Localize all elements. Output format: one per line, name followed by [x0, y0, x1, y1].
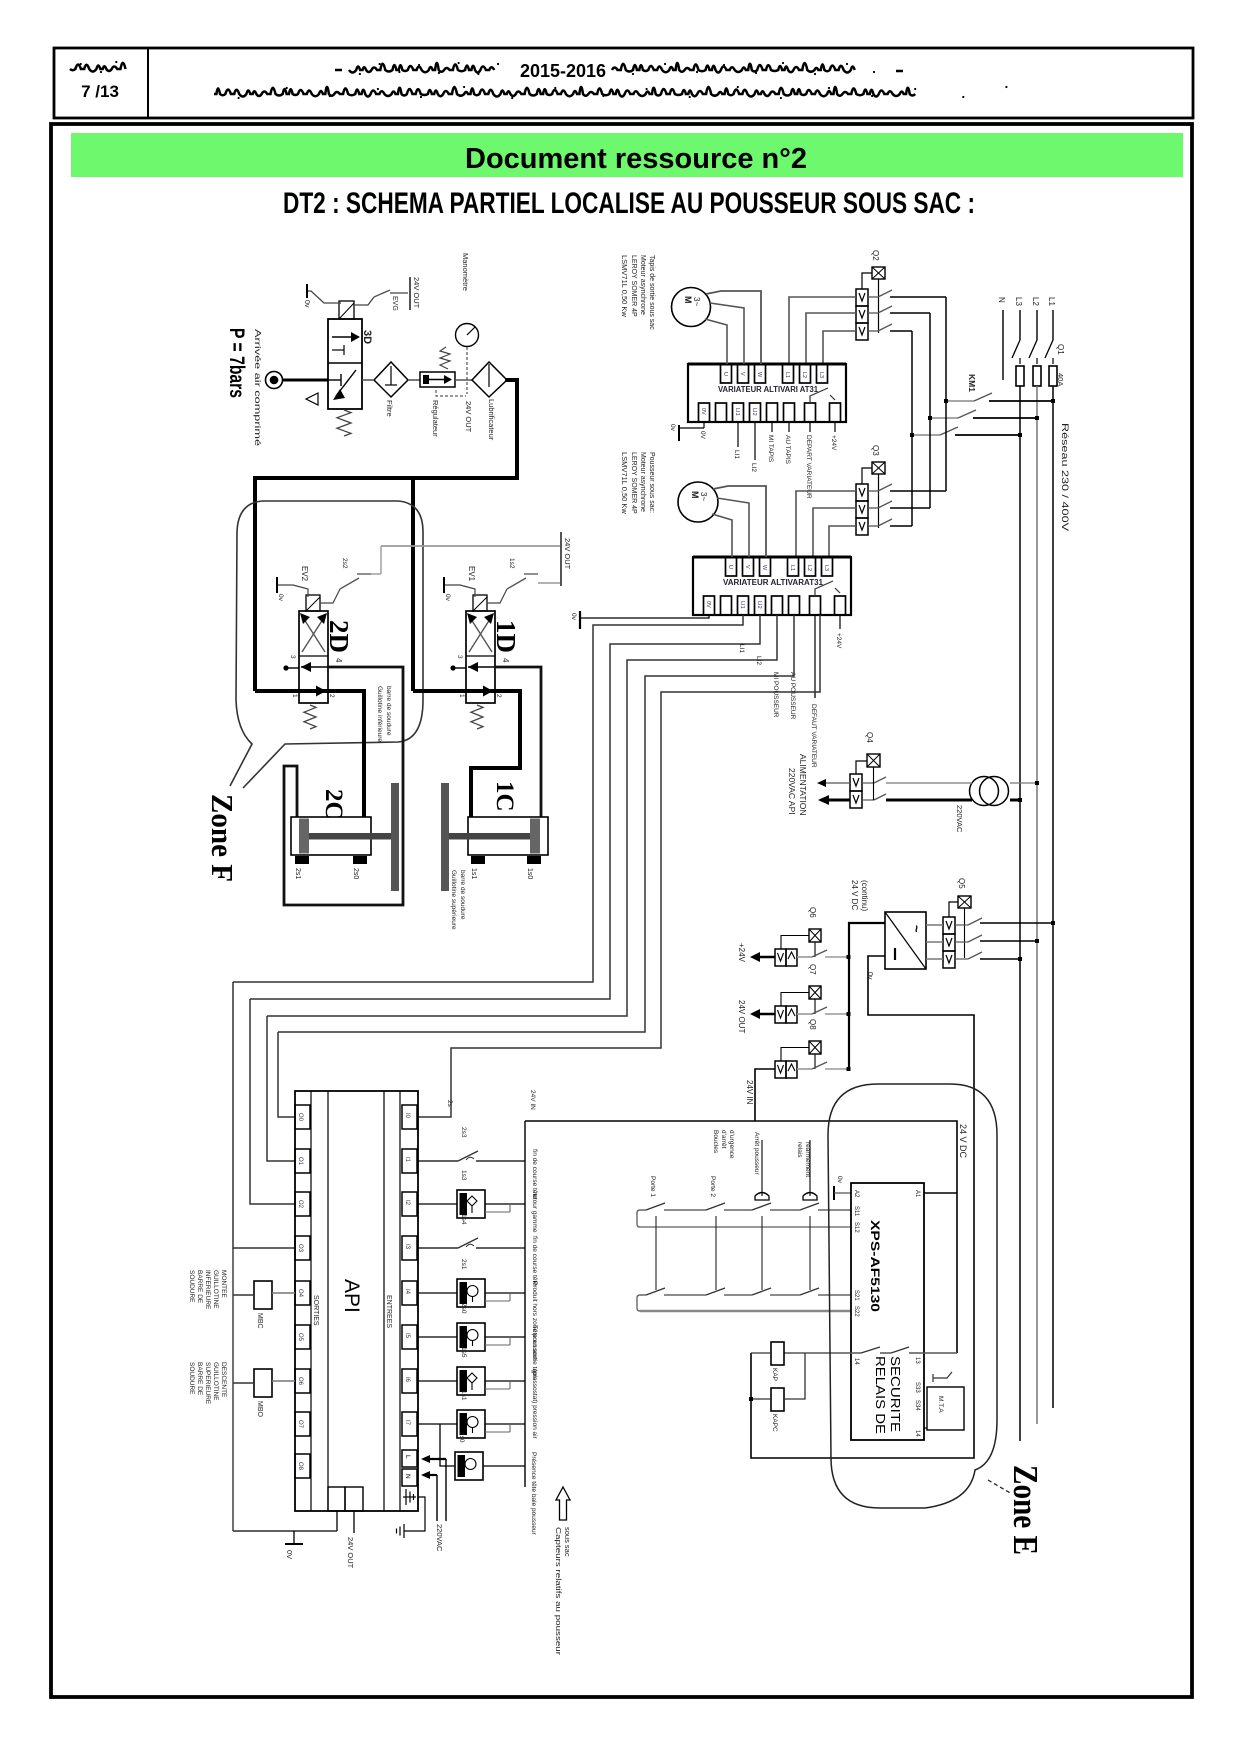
svg-text:2s0: 2s0	[460, 1303, 467, 1314]
svg-text:Zone E: Zone E	[1006, 1465, 1045, 1555]
svg-text:S21: S21	[853, 1290, 859, 1301]
svg-text:DESCENTE: DESCENTE	[220, 1362, 227, 1398]
svg-text:2C: 2C	[320, 789, 347, 820]
wires Q3 to variateur 2	[796, 491, 856, 557]
svg-text:0v: 0v	[444, 594, 451, 602]
valve 1D exhaust port 3	[454, 667, 466, 669]
svg-text:INFERIEURE: INFERIEURE	[204, 1270, 211, 1310]
distribution row Q7	[775, 1006, 786, 1023]
svg-text:LEROY SOMER 4P: LEROY SOMER 4P	[630, 255, 637, 317]
Q4 breaker	[850, 774, 862, 791]
cylinder 1C rod	[446, 833, 530, 840]
svg-text:2: 2	[495, 694, 502, 698]
svg-text:VARIATEUR ALTIVARI AT31: VARIATEUR ALTIVARI AT31	[718, 385, 819, 394]
svg-text:LI1: LI1	[739, 601, 745, 609]
solenoid EV2	[306, 595, 320, 611]
svg-text:GUILLOTINE: GUILLOTINE	[212, 1362, 219, 1401]
left bus down to 0V	[232, 1248, 234, 1531]
svg-text:14: 14	[914, 1430, 920, 1437]
svg-text:MI TAPIS: MI TAPIS	[767, 435, 774, 463]
filtre	[374, 362, 408, 397]
svg-text:retour gamme: retour gamme	[531, 1192, 538, 1233]
svg-text:220VAC: 220VAC	[955, 805, 964, 833]
svg-text:24V OUT: 24V OUT	[563, 538, 572, 570]
svg-text:0v: 0v	[570, 613, 577, 621]
header exam title line 1 (Arabic)	[349, 63, 855, 73]
staircase landings	[233, 982, 295, 1248]
API L N terminals	[402, 1450, 417, 1467]
variateur 1 0V bar	[679, 428, 704, 433]
relay coil MBO (descente guillotine)	[254, 1369, 272, 1397]
header divider	[147, 48, 149, 118]
svg-text:0V: 0V	[705, 601, 711, 608]
svg-text:1: 1	[458, 694, 465, 698]
svg-text:I2: I2	[404, 1200, 410, 1206]
svg-text:LSMV71L 0,50 Kw: LSMV71L 0,50 Kw	[620, 255, 629, 317]
svg-text:Document ressource n°2: Document ressource n°2	[465, 143, 807, 175]
svg-text:Q1: Q1	[1056, 344, 1065, 355]
cylinder 2C piston	[299, 819, 309, 854]
feeder Q2/Q3 verticals	[945, 297, 947, 491]
svg-text:Présence tête bale pousseur: Présence tête bale pousseur	[530, 1452, 537, 1536]
chain 0v terminal	[833, 1186, 835, 1200]
Q4 contacts	[862, 782, 874, 784]
svg-text:AU POUSSEUR: AU POUSSEUR	[789, 672, 796, 720]
svg-text:LI1: LI1	[734, 408, 740, 416]
VARIATEUR ALTIVARAT31 box	[693, 557, 851, 615]
e-stop chain loop 2 (S21-S22)	[637, 1295, 851, 1311]
svg-text:SUPERIEURE: SUPERIEURE	[204, 1362, 211, 1405]
svg-text:2s3: 2s3	[460, 1127, 467, 1138]
svg-text:EV2: EV2	[300, 566, 309, 582]
svg-text:KAPC: KAPC	[771, 1414, 778, 1432]
svg-text:Tapis de sortie sous sac: Tapis de sortie sous sac	[648, 255, 655, 330]
distribution row Q8	[775, 1061, 786, 1078]
svg-text:V: V	[739, 372, 745, 376]
svg-text:I4: I4	[404, 1289, 410, 1295]
24V OUT bus (valves)	[381, 545, 561, 547]
svg-text:SECURITE: SECURITE	[888, 1356, 902, 1432]
svg-text:4: 4	[334, 658, 343, 663]
motor M1	[672, 288, 711, 327]
svg-text:2s: 2s	[446, 1100, 453, 1108]
svg-text:LEROY SOMER 4P: LEROY SOMER 4P	[630, 452, 637, 514]
svg-text:LI2: LI2	[751, 408, 757, 416]
svg-text:L3: L3	[818, 372, 824, 378]
svg-text:Arrêt pousseur: Arrêt pousseur	[753, 1132, 760, 1175]
+24V bus from PSU	[849, 923, 885, 1069]
svg-text:V: V	[744, 565, 750, 569]
input device 2s1	[418, 1292, 457, 1294]
Zone E pointer	[988, 1480, 1012, 1494]
svg-text:3: 3	[289, 655, 296, 659]
cylinder 1C sensors	[471, 856, 485, 864]
Q4 fuse + label	[867, 754, 880, 767]
svg-text:EVG: EVG	[391, 296, 398, 311]
svg-text:BARRE DE: BARRE DE	[196, 1362, 203, 1396]
EVG coil wire left + 0V	[307, 291, 341, 303]
svg-text:Q4: Q4	[865, 732, 874, 743]
N stub above inputs	[417, 1116, 419, 1118]
Zone F boundary	[243, 501, 423, 788]
svg-text:L2: L2	[1031, 297, 1040, 306]
valve 3D body	[328, 319, 362, 409]
svg-text:Porte 1: Porte 1	[649, 1176, 656, 1197]
svg-text:M: M	[683, 296, 693, 304]
svg-text:+24V: +24V	[835, 633, 842, 649]
svg-text:1s4: 1s4	[460, 1214, 467, 1225]
svg-text:I0: I0	[404, 1113, 410, 1119]
svg-text:ALIMENTATION: ALIMENTATION	[798, 754, 808, 816]
svg-text:0V: 0V	[700, 408, 706, 415]
svg-text:O3: O3	[297, 1244, 303, 1253]
svg-text:KM1: KM1	[967, 374, 977, 392]
valve 1D spring	[471, 705, 483, 729]
input device 1s1	[418, 1423, 457, 1425]
svg-text:EV1: EV1	[467, 566, 476, 582]
svg-text:Boucles: Boucles	[712, 1130, 719, 1154]
svg-text:1s5: 1s5	[460, 1347, 467, 1358]
network verticals	[1019, 386, 1021, 435]
svg-text:d’arrêt: d’arrêt	[720, 1130, 727, 1149]
solenoid EV1	[473, 595, 487, 611]
svg-text:I1: I1	[404, 1157, 410, 1163]
svg-text:Q8: Q8	[808, 1019, 817, 1030]
svg-text:+24V: +24V	[737, 943, 746, 963]
cylinder 2C body	[291, 817, 371, 855]
svg-text:O0: O0	[297, 1113, 303, 1122]
svg-text:M: M	[690, 491, 700, 499]
svg-text:0V: 0V	[285, 1550, 294, 1559]
svg-text:N: N	[997, 297, 1006, 303]
lubrificateur	[455, 379, 472, 381]
24VDC sensor rail	[525, 1121, 957, 1353]
svg-text:13: 13	[914, 1357, 920, 1364]
valve 3D spring	[337, 410, 351, 436]
motor M1 wires	[706, 291, 761, 364]
svg-text:0v: 0v	[866, 972, 873, 980]
cylinder 1C piston	[530, 819, 540, 854]
svg-text:0V: 0V	[699, 431, 706, 440]
manometre	[456, 324, 479, 347]
API block	[295, 1091, 418, 1511]
emergency stop buttons	[755, 1193, 769, 1201]
svg-text:Guillotine supérieure: Guillotine supérieure	[450, 870, 457, 930]
svg-text:I5: I5	[404, 1333, 410, 1339]
svg-text:7 /13: 7 /13	[81, 82, 119, 101]
variateur 1 bottom stubs	[703, 422, 705, 428]
svg-text:3: 3	[456, 655, 463, 659]
API input terminals I0-I8	[402, 1105, 417, 1129]
svg-text:2015-2016: 2015-2016	[520, 61, 606, 81]
svg-text:VARIATEUR ALTIVARAT31: VARIATEUR ALTIVARAT31	[723, 578, 824, 587]
svg-text:O4: O4	[297, 1289, 303, 1298]
svg-text:24 V DC: 24 V DC	[850, 880, 859, 910]
PSU 24VDC box	[885, 912, 926, 969]
svg-text:S11: S11	[853, 1206, 859, 1217]
main pneumatic line	[255, 380, 517, 691]
e-stop chain loop 1 (S11-S12)	[637, 1210, 851, 1227]
svg-text:2s0: 2s0	[352, 868, 359, 879]
L N supply arrows	[421, 1455, 430, 1463]
svg-text:L1: L1	[1047, 297, 1056, 306]
long feeders down the page	[1019, 435, 1021, 1441]
input device 1s3	[418, 1203, 457, 1205]
svg-text:LSMV71L 0,50 Kw: LSMV71L 0,50 Kw	[620, 452, 629, 514]
svg-text:relais: relais	[796, 1142, 803, 1158]
svg-text:XPS-AF5130: XPS-AF5130	[868, 1220, 882, 1312]
svg-text:220VAC: 220VAC	[435, 1524, 444, 1552]
Q1 switch-fuses	[1012, 340, 1020, 358]
relay coil KAPC	[771, 1388, 784, 1411]
svg-text:W: W	[761, 565, 767, 571]
contactor KM1	[946, 400, 974, 402]
svg-text:Q2: Q2	[871, 250, 880, 261]
relay coil KAP	[771, 1342, 784, 1365]
svg-text:LI2: LI2	[750, 463, 757, 472]
0V return rail	[751, 956, 974, 1458]
svg-text:24V OUT: 24V OUT	[737, 1000, 746, 1033]
pneumatic tube 1D port4	[494, 667, 541, 817]
svg-text:24 V DC: 24 V DC	[958, 1124, 968, 1159]
svg-text:24V IN: 24V IN	[745, 1080, 754, 1105]
svg-text:40A: 40A	[1056, 373, 1065, 386]
API 0V / 24V OUT bottom	[336, 1511, 338, 1531]
svg-text:RELAIS DE: RELAIS DE	[873, 1356, 887, 1434]
solenoid EVG	[339, 301, 354, 319]
svg-text:A1: A1	[914, 1190, 920, 1198]
wires Q2 to variateur 1	[789, 297, 856, 364]
svg-text:220VAC API: 220VAC API	[787, 768, 797, 815]
svg-text:Moteur asynchrone: Moteur asynchrone	[639, 452, 646, 512]
transformer	[970, 777, 999, 806]
svg-text:1C: 1C	[491, 781, 518, 812]
svg-text:0v: 0v	[277, 594, 284, 602]
svg-text:AU TAPIS: AU TAPIS	[784, 435, 791, 465]
svg-text:O6: O6	[297, 1377, 303, 1386]
input device 1s5	[418, 1380, 457, 1382]
svg-text:2s1: 2s1	[460, 1259, 467, 1270]
svg-text:réarmement: réarmement	[804, 1142, 811, 1177]
svg-text:O7: O7	[297, 1420, 303, 1429]
svg-text:SORTIES: SORTIES	[312, 1295, 319, 1326]
svg-text:S12: S12	[853, 1222, 859, 1233]
svg-text:L2: L2	[806, 565, 812, 571]
svg-text:1s0: 1s0	[458, 1432, 465, 1443]
valve 2D spring	[304, 705, 316, 729]
svg-text:I6: I6	[404, 1377, 410, 1383]
linkage lines between chain contacts	[655, 1216, 657, 1290]
svg-text:W: W	[756, 372, 762, 378]
valve 2D exhaust port 3	[287, 667, 299, 669]
svg-text:N: N	[404, 1474, 411, 1479]
pneumatic tube 2D->2C thick	[255, 691, 364, 817]
svg-text:Q5: Q5	[957, 878, 966, 889]
pneumatic tube 1D->1C thick	[413, 691, 520, 817]
svg-text:I3: I3	[404, 1244, 410, 1250]
svg-text:U: U	[722, 372, 728, 376]
svg-text:24V OUT: 24V OUT	[464, 401, 473, 433]
svg-text:2s1: 2s1	[294, 868, 301, 879]
header box	[54, 48, 1193, 118]
input device 1s4	[418, 1247, 458, 1249]
cylinder 2C rod	[309, 833, 391, 840]
cylinder 2C sensors	[295, 856, 309, 864]
svg-text:S34: S34	[914, 1400, 920, 1411]
svg-text:1D: 1D	[491, 620, 521, 653]
svg-text:Q6: Q6	[808, 907, 817, 918]
circuit breaker Q3	[856, 484, 868, 501]
svg-text:0v: 0v	[669, 424, 676, 432]
Q5 breaker	[943, 917, 955, 934]
svg-text:L1: L1	[784, 372, 790, 378]
variateur 2 0V bar	[580, 615, 709, 618]
svg-text:1: 1	[291, 694, 298, 698]
header page label (Arabic)	[70, 63, 126, 72]
relay coil MBC (montee guillotine)	[254, 1281, 272, 1309]
24V IN drop	[755, 1069, 775, 1121]
valve 1D body	[466, 611, 495, 703]
guillotine bar 2C	[391, 783, 399, 891]
ALIMENTATION arrows	[824, 782, 850, 784]
svg-text:Zone F: Zone F	[205, 794, 240, 882]
svg-text:1s0: 1s0	[526, 868, 533, 879]
transformer wires	[886, 782, 972, 784]
svg-text:24V OUT: 24V OUT	[346, 1537, 355, 1569]
motor M2 wires	[713, 486, 766, 557]
svg-text:24V IN: 24V IN	[529, 1090, 536, 1110]
svg-text:DEFAUT VARIATEUR: DEFAUT VARIATEUR	[810, 704, 817, 768]
input device row 8	[418, 1423, 432, 1425]
svg-text:KAP: KAP	[771, 1368, 778, 1381]
svg-text:L: L	[404, 1455, 411, 1459]
header exam title line 2 (Arabic)	[214, 87, 915, 97]
svg-text:S33: S33	[914, 1382, 920, 1393]
svg-text:Manomètre: Manomètre	[461, 253, 470, 291]
svg-text:fin de course tête: fin de course tête	[531, 1236, 538, 1286]
PSU to Q5 wires	[926, 924, 943, 926]
svg-text:LI2: LI2	[756, 601, 762, 609]
svg-text:DT2 : SCHEMA PARTIEL LOCALISE: DT2 : SCHEMA PARTIEL LOCALISE AU POUSSEU…	[283, 187, 975, 220]
svg-text:1s1: 1s1	[470, 868, 477, 879]
air source P=7bars	[266, 372, 283, 389]
svg-text:(pressostat) pression air: (pressostat) pression air	[531, 1369, 538, 1440]
svg-text:ENTREES: ENTREES	[385, 1295, 392, 1328]
svg-text:O8: O8	[297, 1462, 303, 1471]
svg-text:MBC: MBC	[256, 1313, 263, 1329]
svg-text:MBO: MBO	[256, 1401, 263, 1418]
svg-text:Arrivée air comprimé: Arrivée air comprimé	[253, 329, 263, 446]
svg-text:SOUDURE: SOUDURE	[188, 1270, 195, 1303]
guillotine bar 1C	[441, 783, 449, 891]
input device 2s3	[418, 1160, 458, 1162]
rail A1 branch to XPS	[924, 1192, 957, 1194]
svg-text:L2: L2	[801, 372, 807, 378]
svg-text:O2: O2	[297, 1200, 303, 1209]
Q2 output contacts	[868, 296, 878, 298]
capteurs arrow + text	[556, 1487, 570, 1520]
svg-text:14: 14	[853, 1358, 859, 1365]
svg-text:Porte 2: Porte 2	[709, 1176, 716, 1197]
svg-text:Lubrificateur: Lubrificateur	[487, 399, 496, 441]
svg-text:BARRE DE: BARRE DE	[196, 1270, 203, 1304]
API internal ground	[403, 1489, 416, 1505]
svg-text:2: 2	[328, 694, 335, 698]
motor M2	[678, 482, 718, 522]
XPS output contact line 13-14	[784, 1352, 957, 1354]
svg-text:L3: L3	[823, 565, 829, 571]
svg-text:Q7: Q7	[808, 964, 817, 975]
svg-text:O5: O5	[297, 1333, 303, 1342]
svg-text:U: U	[727, 565, 733, 569]
svg-text:Capteurs relatifs au pousseur: Capteurs relatifs au pousseur	[554, 1527, 563, 1656]
staircase wires variateur2 to API	[233, 615, 743, 982]
pneumatic tube 2D port4 loop	[284, 667, 403, 905]
svg-text:L1: L1	[789, 565, 795, 571]
svg-text:GUILLOTINE: GUILLOTINE	[212, 1270, 219, 1309]
svg-text:3~: 3~	[692, 297, 701, 306]
XPS-AF5130 box	[851, 1183, 924, 1440]
svg-text:A2: A2	[853, 1190, 859, 1198]
svg-text:1s2: 1s2	[508, 558, 515, 569]
svg-text:API: API	[340, 1279, 363, 1313]
svg-text:M.T.A: M.T.A	[937, 1396, 944, 1413]
svg-text:Régulateur: Régulateur	[431, 400, 440, 437]
svg-text:Guillotine inférieure: Guillotine inférieure	[376, 686, 383, 742]
branch to 1D	[411, 478, 415, 691]
svg-text:L3: L3	[1014, 297, 1023, 306]
svg-text:MI POUSSEUR: MI POUSSEUR	[772, 672, 779, 718]
input device 2s0	[418, 1336, 457, 1338]
svg-text:I7: I7	[404, 1420, 410, 1426]
svg-text:DEPART VARIATEUR: DEPART VARIATEUR	[805, 435, 812, 499]
API bottom boxes	[328, 1487, 345, 1511]
API output terminals O0-O8	[295, 1105, 310, 1129]
svg-text:3~: 3~	[699, 492, 708, 501]
green banner	[71, 133, 1183, 177]
svg-text:Pousseur sous sac:: Pousseur sous sac:	[648, 452, 655, 513]
cylinder 1C body	[468, 817, 548, 855]
svg-text:+24V: +24V	[830, 435, 837, 451]
svg-text:0v: 0v	[303, 300, 310, 308]
Zone E boundary	[828, 1084, 997, 1508]
wire source to valve	[283, 379, 328, 382]
svg-text:1s3: 1s3	[460, 1170, 467, 1181]
svg-text:Filtre: Filtre	[385, 400, 394, 417]
svg-text:sous sac: sous sac	[563, 1527, 572, 1557]
VARIATEUR ALTIVARI AT31 box	[688, 364, 846, 422]
circuit breaker Q2	[856, 289, 868, 306]
EVG contact + 24V OUT	[354, 297, 374, 305]
svg-text:LI1: LI1	[738, 644, 745, 653]
M.T.A box	[927, 1387, 964, 1430]
svg-text:2s2: 2s2	[341, 558, 348, 569]
Q3 output contacts	[868, 490, 878, 492]
svg-text:~: ~	[909, 925, 924, 933]
svg-text:3D: 3D	[361, 330, 373, 344]
sensor bus vertical	[524, 1121, 526, 1487]
svg-text:SOUDURE: SOUDURE	[188, 1362, 195, 1395]
svg-text:Moteur asynchrone: Moteur asynchrone	[639, 255, 646, 315]
Q5 contacts to feeders	[955, 924, 968, 926]
svg-text:(continu): (continu)	[860, 880, 869, 911]
svg-text:S22: S22	[853, 1306, 859, 1317]
valve 3D exhaust	[306, 393, 318, 405]
svg-text:MONTEE: MONTEE	[220, 1270, 227, 1298]
svg-text:LI1: LI1	[733, 450, 740, 459]
svg-text:4: 4	[501, 658, 510, 663]
svg-text:24V OUT: 24V OUT	[412, 277, 421, 309]
